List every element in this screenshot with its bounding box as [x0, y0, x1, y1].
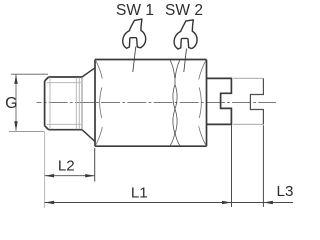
svg-text:SW 2: SW 2	[165, 2, 203, 19]
L1 dimension line	[45, 202, 293, 204]
thread minor diameter lines	[47, 78, 82, 130]
hex body outline	[95, 60, 207, 147]
L1 arrow left	[45, 201, 55, 204]
extension line left shared L1 L2	[44, 132, 46, 209]
G dimension extension line bottom	[9, 131, 44, 133]
hex chamfer curves right end SW2	[199, 60, 206, 145]
L2 dimension line	[45, 175, 95, 177]
L2 arrow right	[85, 174, 95, 177]
leader line SW2	[184, 49, 187, 73]
svg-text:L1: L1	[131, 185, 148, 202]
cone to hex top	[82, 68, 95, 77]
L2 arrow left	[45, 174, 55, 177]
cone to hex bottom	[82, 130, 95, 142]
hex boundary SW1/SW2 ornament	[170, 60, 179, 145]
thread outline	[45, 77, 82, 130]
L3 arrow outside pointing left	[263, 201, 273, 204]
G dimension extension line top	[11, 73, 48, 75]
tip plug outline	[207, 78, 232, 124]
wrench icon SW1	[123, 19, 146, 48]
svg-text:L2: L2	[58, 158, 75, 175]
centerline axis	[37, 102, 277, 104]
phantom mating part bottom edge	[233, 123, 263, 125]
hex chamfer curves left end SW1	[96, 60, 103, 145]
phantom mating part top edge	[233, 77, 263, 79]
leader line SW1	[133, 47, 136, 73]
L1 arrow right	[222, 201, 232, 204]
svg-text:L3: L3	[277, 183, 294, 200]
extension line L2 right	[94, 148, 96, 182]
extension line L3 right	[262, 125, 264, 207]
G arrow up	[14, 74, 17, 84]
thread end line	[81, 77, 83, 130]
wrench icon SW2	[174, 20, 197, 49]
phantom notch outline	[250, 78, 263, 124]
svg-text:G: G	[5, 95, 17, 112]
svg-text:SW 1: SW 1	[116, 2, 154, 19]
extension line L1 right	[231, 125, 233, 207]
G dimension line	[15, 74, 17, 130]
G arrow down	[14, 121, 17, 131]
